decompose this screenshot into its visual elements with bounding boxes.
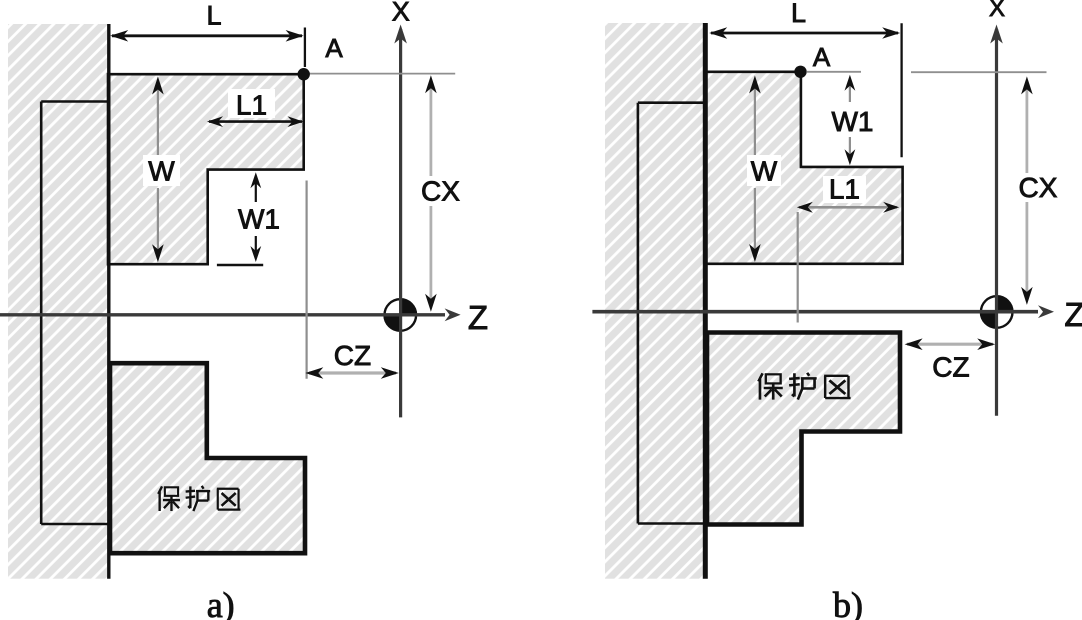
svg-text:Z: Z — [1064, 296, 1082, 333]
svg-text:L: L — [206, 1, 221, 31]
svg-text:A: A — [325, 33, 343, 63]
svg-text:L: L — [791, 0, 806, 28]
svg-text:CZ: CZ — [932, 352, 969, 383]
svg-text:X: X — [989, 0, 1005, 22]
svg-text:W1: W1 — [832, 106, 874, 137]
svg-text:W: W — [751, 156, 778, 187]
svg-text:a): a) — [207, 585, 235, 620]
svg-text:CX: CX — [1019, 172, 1058, 203]
svg-text:CZ: CZ — [334, 340, 371, 371]
svg-text:W: W — [148, 156, 175, 187]
svg-text:b): b) — [833, 585, 863, 620]
svg-text:Z: Z — [468, 299, 488, 336]
svg-text:W1: W1 — [238, 204, 280, 235]
svg-text:L1: L1 — [829, 174, 860, 205]
svg-text:L1: L1 — [236, 90, 267, 121]
svg-text:A: A — [813, 42, 831, 72]
svg-text:CX: CX — [421, 176, 460, 207]
svg-text:X: X — [392, 0, 410, 26]
